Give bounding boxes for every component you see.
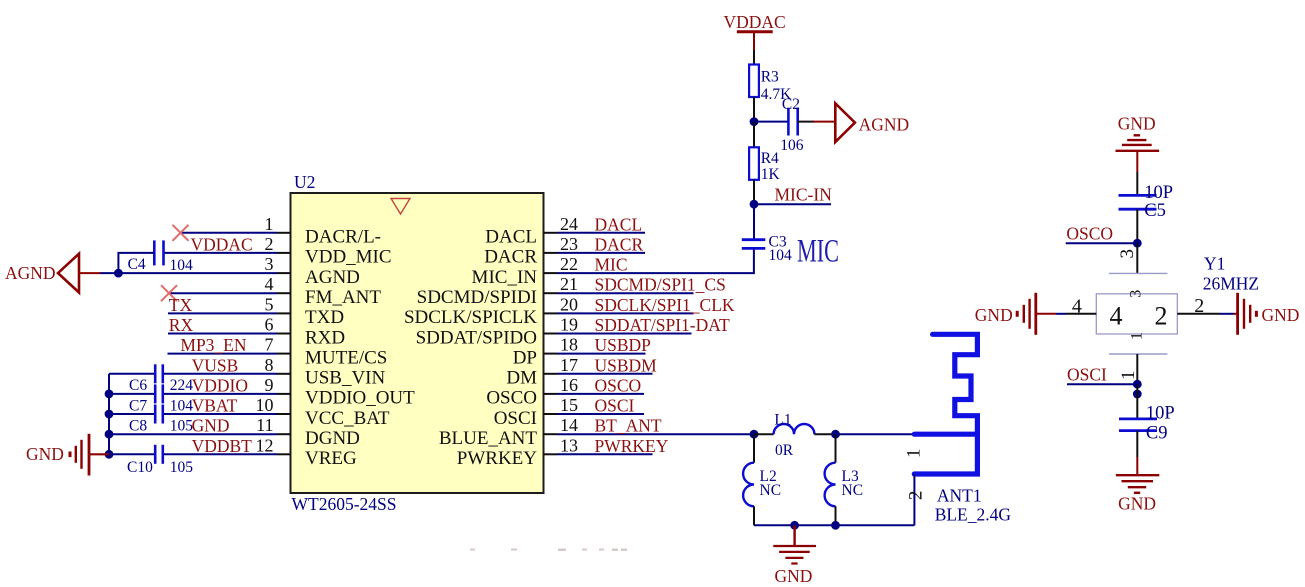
svg-text:MIC: MIC xyxy=(595,255,628,275)
svg-text:DP: DP xyxy=(513,347,537,368)
svg-text:C8: C8 xyxy=(129,417,147,434)
svg-text:18: 18 xyxy=(560,335,578,355)
svg-text:NC: NC xyxy=(842,482,864,499)
svg-text:104: 104 xyxy=(170,257,194,274)
wire R3 to junction xyxy=(753,97,755,122)
svg-text:GND: GND xyxy=(1118,114,1156,134)
wire C2 to AGND xyxy=(798,121,814,123)
svg-text:DACR: DACR xyxy=(484,247,537,268)
capacitor C8 xyxy=(155,405,163,424)
node junction OSCO xyxy=(1133,239,1142,248)
svg-text:OSCO: OSCO xyxy=(1066,224,1113,244)
wire OSCO xyxy=(1066,242,1138,244)
wire pin5 TX xyxy=(168,312,277,314)
wire junction to R4 xyxy=(753,122,755,148)
wire GND stem red xyxy=(793,525,795,546)
svg-text:Y1: Y1 xyxy=(1204,254,1225,274)
IC left pin numbers 1-12 xyxy=(256,214,274,455)
wire GND lead red xyxy=(89,453,109,455)
wire crystal pin1 bottom xyxy=(1136,354,1138,384)
svg-text:MIC_IN: MIC_IN xyxy=(472,267,538,288)
inductor L1 xyxy=(754,433,774,435)
wire pin17 xyxy=(558,373,653,375)
wire pin8 VUSB row xyxy=(109,373,277,375)
svg-text:105: 105 xyxy=(170,417,194,434)
svg-text:2: 2 xyxy=(1194,295,1204,317)
svg-text:MIC-IN: MIC-IN xyxy=(775,184,833,204)
wire pin22 MIC xyxy=(558,248,754,273)
svg-text:PWRKEY: PWRKEY xyxy=(457,448,538,469)
wire bottom rail xyxy=(754,524,914,526)
svg-text:SDCLK/SPICLK: SDCLK/SPICLK xyxy=(404,307,537,328)
svg-text:RX: RX xyxy=(169,315,194,335)
svg-text:GND: GND xyxy=(975,305,1013,325)
svg-text:3: 3 xyxy=(1128,290,1145,298)
svg-text:VUSB: VUSB xyxy=(192,355,239,375)
wire pin21 xyxy=(558,292,694,294)
ground GND antenna symbol xyxy=(773,546,816,564)
wire pin4 left xyxy=(169,292,277,294)
wire pin19 xyxy=(558,333,692,335)
AGND symbol right xyxy=(835,103,855,142)
IC right pin names xyxy=(404,227,537,470)
capacitor C3 xyxy=(742,240,766,249)
svg-text:PWRKEY: PWRKEY xyxy=(595,436,669,456)
svg-text:C7: C7 xyxy=(129,397,147,414)
svg-text:C10: C10 xyxy=(127,459,153,476)
svg-text:VDDBT: VDDBT xyxy=(192,436,253,456)
svg-text:0R: 0R xyxy=(775,442,794,459)
crystal Y1 top plate xyxy=(1109,272,1167,274)
wire GND top stem xyxy=(1136,151,1138,172)
svg-text:WT2605-24SS: WT2605-24SS xyxy=(292,494,397,514)
power VDDAC bar symbol xyxy=(737,30,773,33)
node junction L3 bottom xyxy=(831,521,840,530)
svg-text:BLE_2.4G: BLE_2.4G xyxy=(935,505,1012,525)
IC right pin numbers 24-13 xyxy=(560,214,578,455)
svg-text:8: 8 xyxy=(265,355,274,375)
capacitor C2 xyxy=(788,108,797,136)
capacitor C10 xyxy=(155,445,163,464)
svg-text:2: 2 xyxy=(265,234,274,254)
capacitor C4 xyxy=(154,240,163,265)
wire OSCI xyxy=(1067,383,1137,385)
wire C9 to GND xyxy=(1136,431,1138,457)
wire junction to C2 xyxy=(754,121,788,123)
wire pin1 left xyxy=(181,232,277,234)
svg-text:10P: 10P xyxy=(1144,183,1173,203)
inductor L3 xyxy=(835,434,837,463)
svg-text:2: 2 xyxy=(1155,302,1168,331)
node junction L1 left xyxy=(750,430,759,439)
wire C5 to OSCO junction xyxy=(1136,209,1138,243)
svg-text:24: 24 xyxy=(560,214,578,234)
svg-text:C6: C6 xyxy=(129,377,147,394)
svg-text:5: 5 xyxy=(265,294,274,314)
svg-text:1: 1 xyxy=(1118,371,1139,381)
svg-text:7: 7 xyxy=(265,335,274,355)
svg-text:VDDAC: VDDAC xyxy=(724,12,786,32)
svg-text:104: 104 xyxy=(170,397,194,414)
svg-text:C5: C5 xyxy=(1144,201,1166,221)
wire AGND lead (red) xyxy=(79,272,101,274)
IC pin stubs right xyxy=(544,233,558,454)
svg-text:AGND: AGND xyxy=(859,115,910,135)
wire crystal pin3 xyxy=(1136,243,1138,273)
no-connect X pin1 xyxy=(173,225,189,241)
svg-text:OSCO: OSCO xyxy=(595,375,642,395)
svg-text:13: 13 xyxy=(560,435,578,455)
wire pin14 BT_ANT xyxy=(558,433,755,435)
node junction C4/AGND xyxy=(114,269,123,278)
svg-text:L1: L1 xyxy=(774,411,791,428)
svg-text:TXD: TXD xyxy=(305,307,344,328)
capacitor C9 xyxy=(1119,419,1157,431)
svg-text:4: 4 xyxy=(1110,302,1123,331)
node junction OSCI xyxy=(1133,380,1142,389)
AGND symbol left xyxy=(58,254,79,293)
svg-text:19: 19 xyxy=(560,315,578,335)
svg-text:U2: U2 xyxy=(294,172,315,192)
svg-text:21: 21 xyxy=(560,274,578,294)
svg-text:MUTE/CS: MUTE/CS xyxy=(305,347,387,368)
node junction L1 right xyxy=(831,430,840,439)
wire pin12 VDDBT row xyxy=(109,453,277,455)
svg-text:3: 3 xyxy=(1117,249,1138,258)
svg-text:SDCMD/SPIDI: SDCMD/SPIDI xyxy=(417,287,537,308)
svg-text:106: 106 xyxy=(780,137,804,154)
svg-text:FM_ANT: FM_ANT xyxy=(305,287,381,308)
wire pin3 AGND row xyxy=(100,272,277,274)
wire pin15 xyxy=(558,413,645,415)
svg-text:SDDAT/SPI1-DAT: SDDAT/SPI1-DAT xyxy=(595,315,730,335)
wire pin10 VBAT row xyxy=(109,413,277,415)
wire pin16 xyxy=(558,393,645,395)
wire C4 left branch xyxy=(118,253,154,273)
svg-text:GND: GND xyxy=(192,416,230,436)
svg-text:10P: 10P xyxy=(1146,403,1175,423)
svg-text:SDDAT/SPIDO: SDDAT/SPIDO xyxy=(416,327,537,348)
svg-text:DM: DM xyxy=(506,368,537,389)
svg-text:C4: C4 xyxy=(128,256,146,273)
wire L1 to antenna pin1 xyxy=(836,433,915,435)
wire pin13 xyxy=(558,453,653,455)
svg-text:14: 14 xyxy=(560,415,578,435)
svg-text:OSCI: OSCI xyxy=(595,396,635,416)
resistor R4 xyxy=(749,147,759,180)
svg-text:USBDP: USBDP xyxy=(595,335,652,355)
svg-text:4: 4 xyxy=(1072,296,1082,318)
wire pin2 from C4 xyxy=(164,252,277,254)
svg-text:VDDIO_OUT: VDDIO_OUT xyxy=(305,388,415,409)
IC pin stubs left xyxy=(277,233,291,454)
svg-text:DACR/L-: DACR/L- xyxy=(305,227,381,248)
wire pin23 DACR xyxy=(558,252,646,254)
node bus row12 xyxy=(105,450,114,459)
svg-text:DACL: DACL xyxy=(595,214,643,234)
capacitor C6 xyxy=(155,364,163,383)
svg-text:DACR: DACR xyxy=(595,234,644,254)
wire left bus vertical xyxy=(108,374,110,455)
wire pin18 xyxy=(558,353,646,355)
wire R4 to MIC-IN junction xyxy=(753,180,755,204)
node bus row11 xyxy=(105,430,114,439)
wire crystal pin4 left xyxy=(1066,313,1096,315)
svg-text:RXD: RXD xyxy=(305,327,345,348)
wire VDDAC stem xyxy=(753,32,755,50)
svg-text:TX: TX xyxy=(169,295,193,315)
svg-text:224: 224 xyxy=(170,377,194,394)
svg-text:3: 3 xyxy=(265,254,274,274)
antenna pin1 bar xyxy=(914,432,977,437)
svg-text:SDCMD/SPI1_CS: SDCMD/SPI1_CS xyxy=(595,275,726,295)
svg-text:C9: C9 xyxy=(1146,424,1168,444)
svg-text:4: 4 xyxy=(265,274,274,294)
node junction MIC-IN xyxy=(750,200,759,209)
wire pin6 RX xyxy=(168,333,277,335)
wire crystal pin2 right xyxy=(1177,313,1219,315)
node bus row10 xyxy=(105,410,114,419)
wire antenna pin2 riser xyxy=(913,474,915,525)
wire pin9 VDDIO row xyxy=(109,393,277,395)
wire junction to C3 xyxy=(753,204,755,240)
svg-text:SDCLK/SPI1_CLK: SDCLK/SPI1_CLK xyxy=(595,295,735,315)
svg-text:9: 9 xyxy=(265,375,274,395)
svg-text:20: 20 xyxy=(560,294,578,314)
svg-text:ANT1: ANT1 xyxy=(937,486,982,506)
node junction R3/R4/C2 xyxy=(750,117,759,126)
svg-text:104: 104 xyxy=(769,247,793,264)
svg-text:OSCI: OSCI xyxy=(494,408,537,429)
node junction OSCI lower xyxy=(1133,390,1142,399)
svg-text:22: 22 xyxy=(560,254,578,274)
crystal Y1 body xyxy=(1096,294,1177,334)
svg-text:12: 12 xyxy=(256,435,274,455)
svg-text:17: 17 xyxy=(560,355,578,375)
svg-text:BLUE_ANT: BLUE_ANT xyxy=(439,428,538,449)
svg-text:GND: GND xyxy=(26,444,64,464)
svg-text:OSCI: OSCI xyxy=(1067,364,1107,384)
svg-text:10: 10 xyxy=(256,395,274,415)
svg-text:C2: C2 xyxy=(782,96,800,113)
no-connect X pin4 xyxy=(161,285,177,301)
svg-text:1: 1 xyxy=(1128,332,1145,340)
svg-text:R3: R3 xyxy=(761,69,779,86)
svg-text:VDDIO: VDDIO xyxy=(192,375,248,395)
wire pin20 xyxy=(558,312,694,314)
svg-text:2: 2 xyxy=(906,491,927,501)
svg-text:OSCO: OSCO xyxy=(486,388,537,409)
wire pin7 MP3_EN xyxy=(168,353,277,355)
svg-text:VDD_MIC: VDD_MIC xyxy=(305,247,392,268)
wire pin24 DACL xyxy=(558,232,646,234)
svg-text:AGND: AGND xyxy=(5,263,56,283)
svg-text:MP3_EN: MP3_EN xyxy=(180,335,246,355)
svg-text:16: 16 xyxy=(560,375,578,395)
svg-text:GND: GND xyxy=(1118,494,1156,514)
svg-text:GND: GND xyxy=(1262,305,1300,325)
ground GND crystal top symbol (inverted) xyxy=(1116,135,1160,151)
svg-text:AGND: AGND xyxy=(305,267,360,288)
svg-text:VREG: VREG xyxy=(305,448,357,469)
svg-text:26MHZ: 26MHZ xyxy=(1203,274,1259,294)
svg-text:VBAT: VBAT xyxy=(192,396,238,416)
svg-text:11: 11 xyxy=(256,415,273,435)
svg-text:VDDAC: VDDAC xyxy=(191,234,253,254)
antenna ANT1 meander xyxy=(914,334,977,474)
ground GND crystal left symbol xyxy=(1017,293,1036,335)
ground GND left symbol xyxy=(70,434,89,476)
svg-text:BT_ANT: BT_ANT xyxy=(595,416,662,436)
svg-text:DACL: DACL xyxy=(485,227,537,248)
wire OSCI to C9 xyxy=(1136,384,1138,419)
capacitor C7 xyxy=(155,384,163,403)
svg-text:USBDM: USBDM xyxy=(595,355,658,375)
node bus row9 xyxy=(105,390,114,399)
node junction GND tap xyxy=(790,521,799,530)
svg-text:NC: NC xyxy=(760,482,782,499)
IC U2 body xyxy=(291,193,544,493)
svg-text:1: 1 xyxy=(904,448,925,458)
svg-text:15: 15 xyxy=(560,395,578,415)
resistor R3 xyxy=(749,65,759,98)
inductor L2 xyxy=(753,434,755,463)
ground GND crystal right symbol xyxy=(1238,293,1257,335)
svg-text:23: 23 xyxy=(560,234,578,254)
svg-text:DGND: DGND xyxy=(305,428,360,449)
svg-text:R4: R4 xyxy=(761,150,779,167)
svg-text:1K: 1K xyxy=(761,166,781,183)
wire MIC-IN stub xyxy=(754,203,831,205)
svg-text:VCC_BAT: VCC_BAT xyxy=(305,408,390,429)
svg-text:USB_VIN: USB_VIN xyxy=(305,368,386,389)
svg-text:105: 105 xyxy=(170,459,194,476)
watermark faint marks xyxy=(470,549,627,552)
capacitor C5 xyxy=(1119,195,1157,209)
svg-text:GND: GND xyxy=(775,566,813,586)
ground GND crystal bottom symbol xyxy=(1116,475,1159,493)
svg-text:6: 6 xyxy=(265,315,274,335)
svg-text:MIC: MIC xyxy=(797,234,839,270)
svg-text:1: 1 xyxy=(265,214,274,234)
wire pin11 GND row xyxy=(109,433,277,435)
crystal Y1 bottom plate xyxy=(1109,353,1167,355)
IC left pin names xyxy=(305,227,415,470)
